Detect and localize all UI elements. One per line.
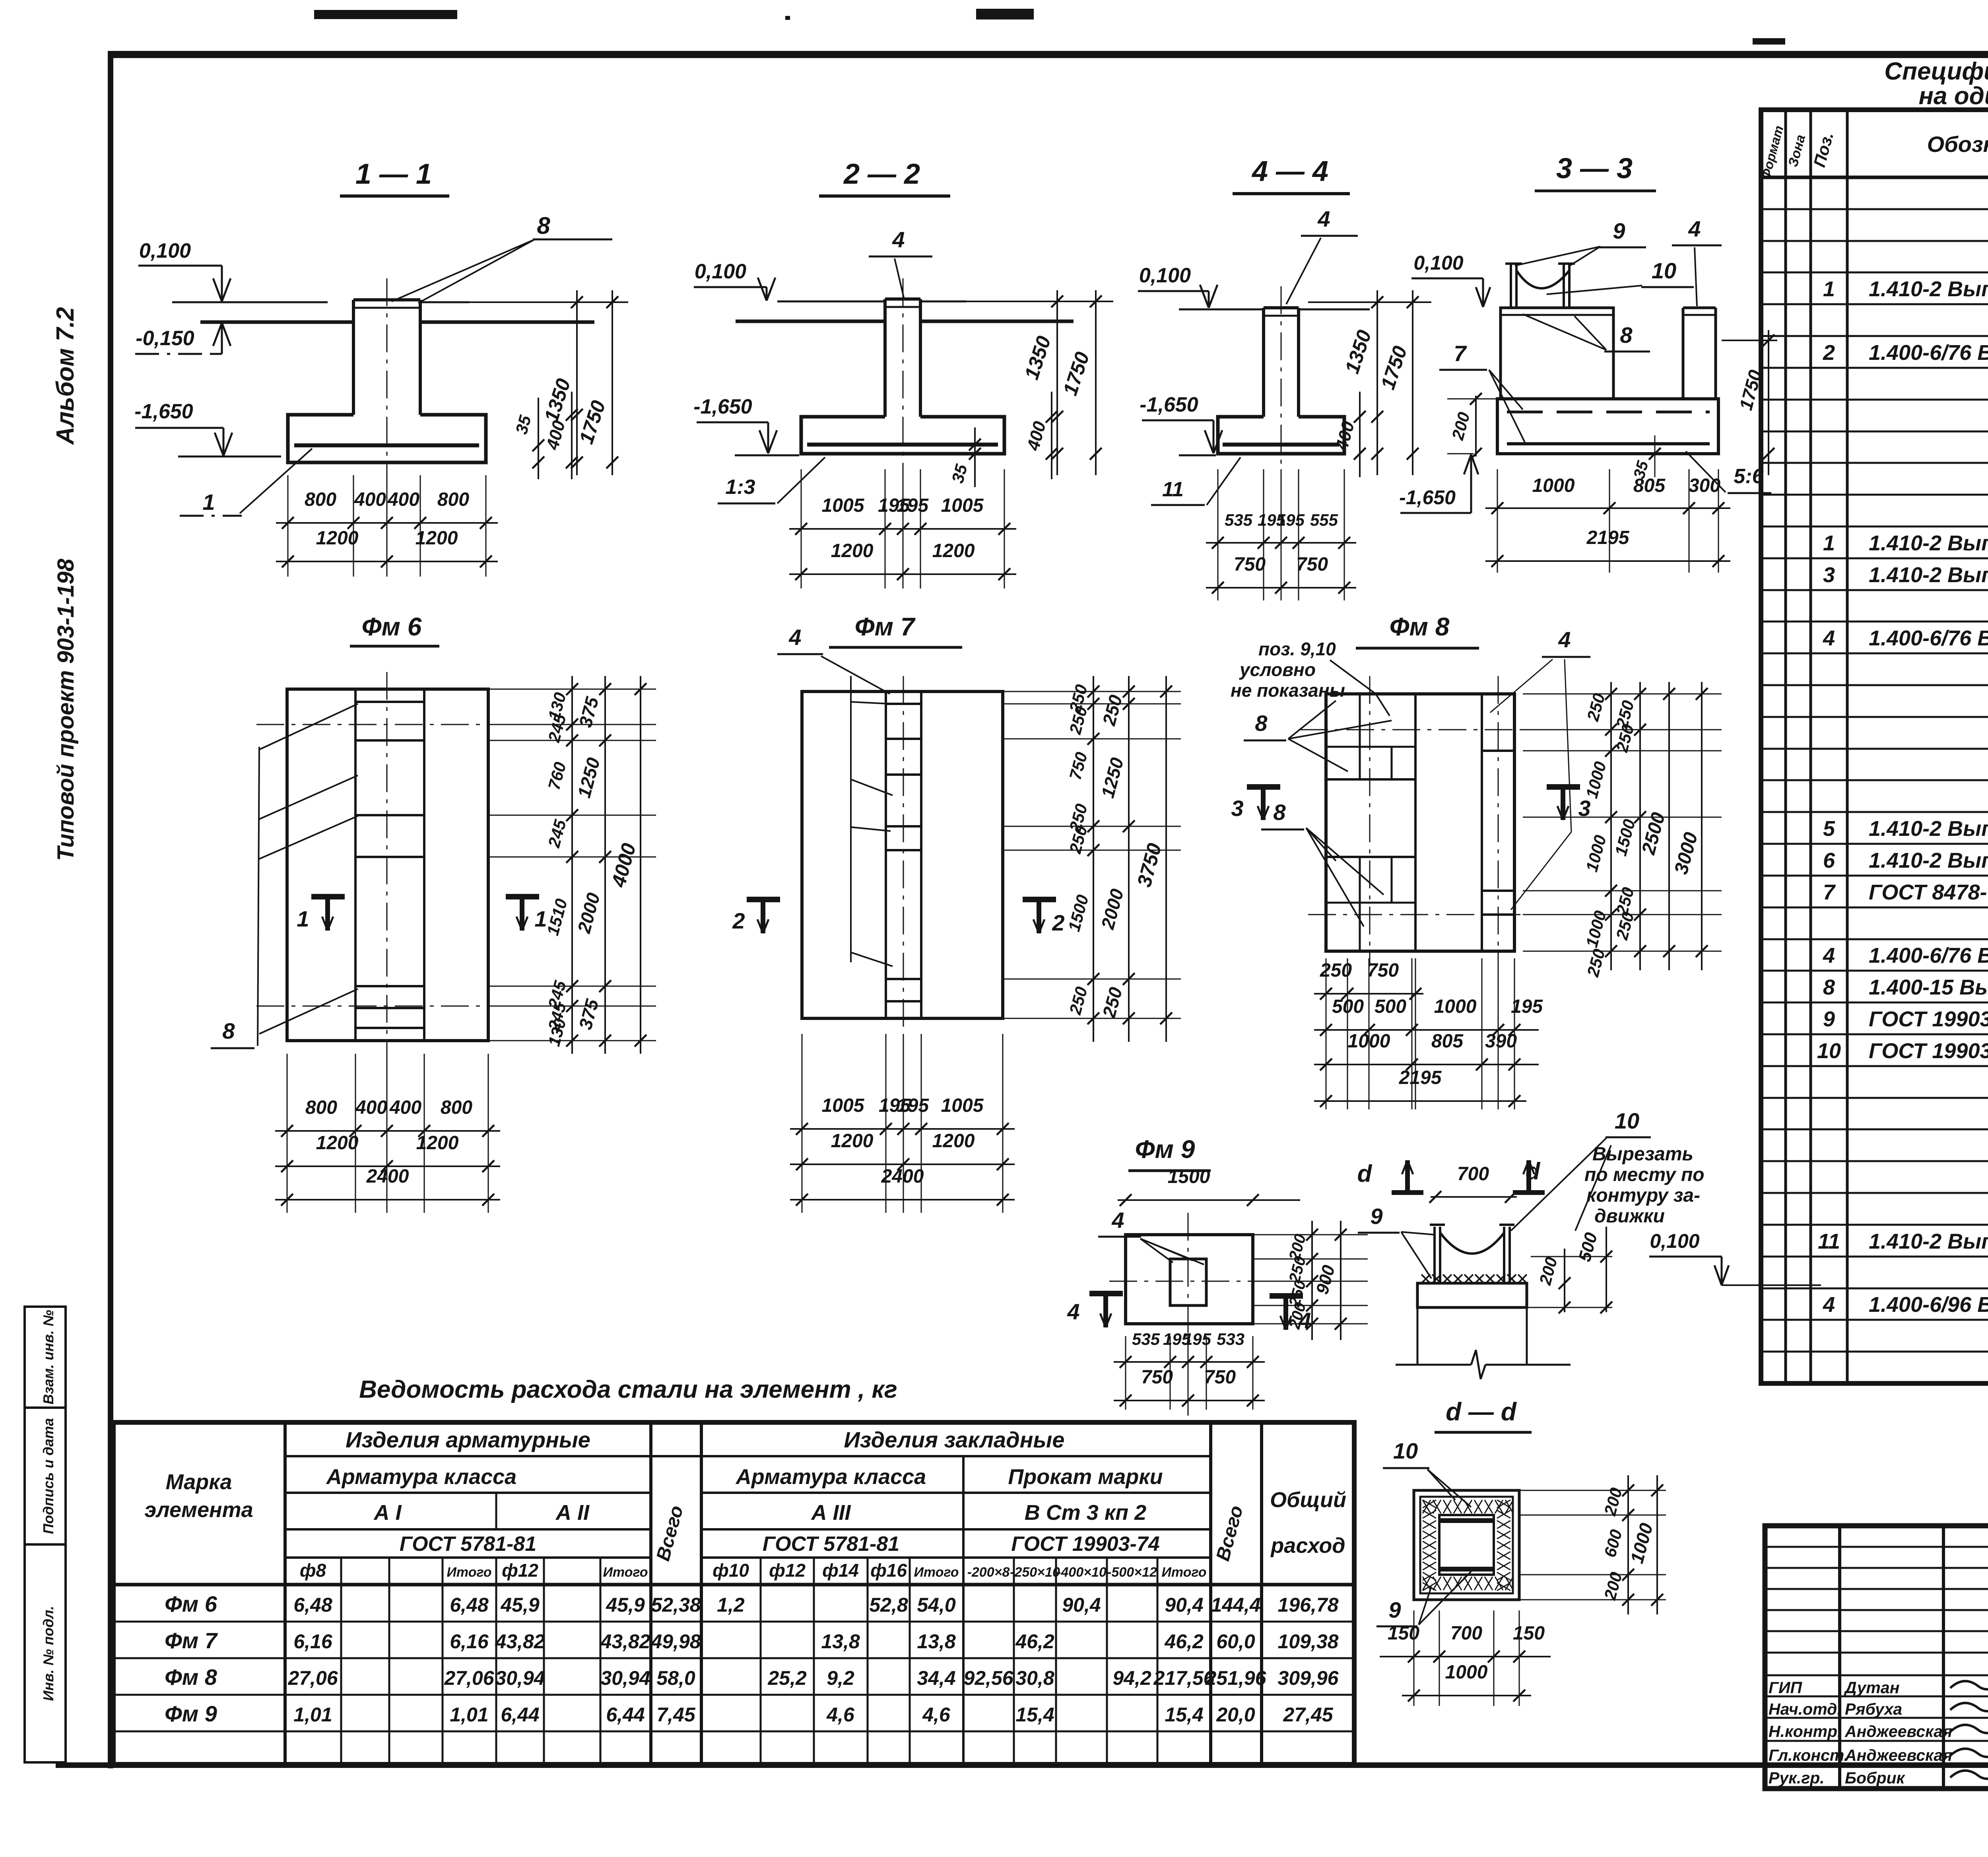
svg-text:11: 11 <box>1162 478 1184 501</box>
svg-text:13,8: 13,8 <box>917 1630 956 1653</box>
svg-text:Ведомость расхода стал: Ведомость расхода стали на элемент , кг <box>359 1376 897 1403</box>
svg-text:Фм 6: Фм 6 <box>165 1591 217 1616</box>
svg-text:1200: 1200 <box>831 1131 874 1152</box>
svg-text:не показаны: не показаны <box>1231 680 1345 701</box>
svg-text:800: 800 <box>305 1097 337 1118</box>
svg-text:250: 250 <box>1320 960 1352 981</box>
svg-text:45,9: 45,9 <box>606 1594 645 1616</box>
svg-text:52,38: 52,38 <box>651 1594 701 1616</box>
svg-text:25,2: 25,2 <box>767 1667 807 1689</box>
svg-text:0,100: 0,100 <box>1413 252 1463 274</box>
svg-text:1,01: 1,01 <box>450 1704 488 1726</box>
svg-text:400: 400 <box>355 1097 387 1118</box>
svg-text:750: 750 <box>1367 960 1399 981</box>
svg-text:Прокат марки: Прокат марки <box>1008 1465 1163 1489</box>
svg-text:ф8: ф8 <box>300 1560 326 1581</box>
svg-text:ГОСТ 5781-81: ГОСТ 5781-81 <box>763 1533 899 1556</box>
svg-text:Бобрик: Бобрик <box>1845 1769 1906 1787</box>
svg-text:750: 750 <box>1141 1367 1173 1388</box>
svg-text:6,16: 6,16 <box>293 1630 333 1653</box>
svg-text:0,100: 0,100 <box>139 239 191 262</box>
svg-text:-1,650: -1,650 <box>1140 393 1198 416</box>
svg-text:ф12: ф12 <box>502 1560 538 1581</box>
svg-text:1,2: 1,2 <box>717 1594 745 1616</box>
svg-text:9: 9 <box>1613 218 1625 243</box>
svg-text:800: 800 <box>437 489 469 510</box>
svg-text:9: 9 <box>1388 1597 1401 1622</box>
svg-text:54,0: 54,0 <box>917 1594 956 1616</box>
svg-text:1005: 1005 <box>941 495 984 516</box>
svg-text:3 — 3: 3 — 3 <box>1556 153 1633 185</box>
svg-text:Взам. инв. №: Взам. инв. № <box>40 1310 56 1404</box>
svg-text:Итого: Итого <box>603 1565 648 1580</box>
svg-text:ф12: ф12 <box>769 1560 806 1581</box>
svg-text:4: 4 <box>788 625 801 650</box>
svg-text:27,45: 27,45 <box>1283 1704 1333 1726</box>
svg-text:30,94: 30,94 <box>495 1667 545 1689</box>
svg-text:1000: 1000 <box>1445 1662 1488 1683</box>
svg-text:Спецификации элементов: Спецификации элементов <box>1884 58 1988 85</box>
svg-text:750: 750 <box>1296 554 1328 575</box>
svg-text:2: 2 <box>1823 341 1835 365</box>
svg-text:1000: 1000 <box>1348 1031 1390 1052</box>
svg-text:8: 8 <box>1620 322 1633 348</box>
svg-text:4: 4 <box>1067 1299 1079 1324</box>
svg-text:ф16: ф16 <box>870 1560 907 1581</box>
svg-text:1.400-6/76 Вып.1: 1.400-6/76 Вып.1 <box>1869 341 1988 365</box>
svg-text:1200: 1200 <box>932 540 975 561</box>
svg-text:533: 533 <box>1217 1330 1244 1348</box>
svg-text:А I: А I <box>373 1501 402 1525</box>
svg-text:1: 1 <box>1823 531 1835 555</box>
svg-text:1.400-6/96 Вып.1: 1.400-6/96 Вып.1 <box>1869 1293 1988 1317</box>
svg-text:30,8: 30,8 <box>1015 1667 1054 1689</box>
svg-text:поз. 9,10: поз. 9,10 <box>1258 639 1336 659</box>
svg-text:3: 3 <box>1823 563 1835 587</box>
svg-text:195: 195 <box>897 495 929 516</box>
svg-text:контуру за-: контуру за- <box>1586 1185 1700 1206</box>
svg-text:Рук.гр.: Рук.гр. <box>1769 1769 1825 1787</box>
svg-text:ф14: ф14 <box>822 1560 859 1581</box>
svg-text:1000: 1000 <box>1434 996 1477 1017</box>
svg-text:2195: 2195 <box>1399 1067 1442 1088</box>
svg-text:195: 195 <box>1183 1330 1211 1348</box>
svg-text:1.410-2 Вып.1: 1.410-2 Вып.1 <box>1869 531 1988 555</box>
svg-text:750: 750 <box>1204 1367 1236 1388</box>
svg-text:0,100: 0,100 <box>1139 264 1191 287</box>
svg-text:150: 150 <box>1513 1623 1545 1644</box>
svg-text:800: 800 <box>305 489 336 510</box>
svg-text:4: 4 <box>1111 1208 1124 1233</box>
svg-text:300: 300 <box>1689 475 1720 496</box>
svg-text:9: 9 <box>1370 1204 1382 1229</box>
svg-text:500: 500 <box>1332 996 1364 1017</box>
svg-text:43,82: 43,82 <box>600 1630 650 1653</box>
svg-text:90,4: 90,4 <box>1062 1594 1101 1616</box>
svg-text:ГОСТ 19903-74: ГОСТ 19903-74 <box>1869 1039 1988 1063</box>
svg-text:1:3: 1:3 <box>725 476 755 499</box>
svg-text:2: 2 <box>732 908 745 933</box>
svg-text:10: 10 <box>1652 258 1676 283</box>
svg-text:Общий: Общий <box>1270 1488 1346 1512</box>
svg-text:2195: 2195 <box>1586 527 1630 548</box>
svg-text:11: 11 <box>1818 1230 1840 1253</box>
svg-text:150: 150 <box>1388 1623 1419 1644</box>
svg-text:800: 800 <box>441 1097 472 1118</box>
svg-text:Дутан: Дутан <box>1844 1678 1899 1697</box>
svg-text:8: 8 <box>1255 711 1268 736</box>
svg-text:4,6: 4,6 <box>922 1704 951 1726</box>
svg-text:Обозначение: Обозначение <box>1927 132 1988 157</box>
svg-text:Н.контр.: Н.контр. <box>1769 1722 1842 1740</box>
svg-text:расход: расход <box>1270 1534 1345 1558</box>
svg-text:4: 4 <box>1317 206 1330 231</box>
svg-text:Анджеевская: Анджеевская <box>1844 1722 1952 1740</box>
svg-text:0,100: 0,100 <box>1650 1230 1699 1252</box>
svg-text:196,78: 196,78 <box>1278 1594 1339 1616</box>
svg-text:4,6: 4,6 <box>826 1704 855 1726</box>
svg-text:1.400-6/76 Вып.1: 1.400-6/76 Вып.1 <box>1869 626 1988 650</box>
svg-text:6: 6 <box>1823 849 1835 872</box>
svg-text:7: 7 <box>1454 341 1467 366</box>
svg-text:d: d <box>1357 1160 1373 1187</box>
svg-text:Марка: Марка <box>166 1470 232 1494</box>
svg-text:27,06: 27,06 <box>444 1667 494 1689</box>
svg-text:Арматура класса: Арматура класса <box>326 1465 516 1489</box>
svg-text:Альбом 7.2: Альбом 7.2 <box>52 307 79 445</box>
svg-text:9,2: 9,2 <box>827 1667 854 1689</box>
svg-text:1.400-15 Вып.1: 1.400-15 Вып.1 <box>1869 975 1988 999</box>
svg-text:Фм 8: Фм 8 <box>165 1665 217 1690</box>
svg-text:20,0: 20,0 <box>1216 1704 1255 1726</box>
svg-text:В Ст 3 кп 2: В Ст 3 кп 2 <box>1025 1501 1146 1525</box>
svg-text:1005: 1005 <box>941 1095 984 1116</box>
svg-text:Фм 9: Фм 9 <box>1135 1135 1195 1164</box>
svg-text:8: 8 <box>537 212 550 239</box>
svg-text:390: 390 <box>1485 1031 1517 1052</box>
svg-text:2400: 2400 <box>881 1166 924 1187</box>
svg-text:6,48: 6,48 <box>293 1594 332 1616</box>
svg-text:-500×12: -500×12 <box>1107 1565 1157 1580</box>
svg-text:400: 400 <box>389 1097 421 1118</box>
svg-text:46,2: 46,2 <box>1164 1630 1204 1653</box>
svg-text:4: 4 <box>1823 1293 1835 1317</box>
svg-text:Нач.отд.: Нач.отд. <box>1769 1700 1842 1718</box>
svg-text:Итого: Итого <box>914 1565 959 1580</box>
svg-text:9: 9 <box>1823 1007 1835 1031</box>
svg-text:1200: 1200 <box>316 528 359 549</box>
svg-text:46,2: 46,2 <box>1015 1630 1054 1653</box>
svg-text:400: 400 <box>354 489 386 510</box>
svg-text:1 — 1: 1 — 1 <box>355 158 432 190</box>
svg-text:1200: 1200 <box>316 1132 359 1154</box>
svg-text:Итого: Итого <box>1161 1565 1206 1580</box>
svg-text:6,16: 6,16 <box>450 1630 489 1653</box>
svg-text:2: 2 <box>1052 910 1064 935</box>
svg-text:А II: А II <box>555 1501 590 1525</box>
svg-text:Изделия закладные: Изделия закладные <box>844 1427 1064 1452</box>
svg-text:1: 1 <box>297 906 309 931</box>
svg-text:Фм 7: Фм 7 <box>855 612 916 641</box>
svg-text:условно: условно <box>1239 659 1316 680</box>
svg-text:8: 8 <box>222 1018 235 1043</box>
svg-text:700: 700 <box>1457 1164 1489 1185</box>
svg-text:1.400-6/76 Вып.1: 1.400-6/76 Вып.1 <box>1869 944 1988 967</box>
svg-text:1,01: 1,01 <box>293 1704 332 1726</box>
svg-text:90,4: 90,4 <box>1165 1594 1203 1616</box>
svg-text:-400×10: -400×10 <box>1056 1565 1107 1580</box>
svg-text:Арматура класса: Арматура класса <box>735 1465 926 1489</box>
svg-text:ГОСТ 5781-81: ГОСТ 5781-81 <box>400 1533 536 1556</box>
svg-text:1: 1 <box>1823 277 1835 301</box>
svg-text:1.410-2 Вып.1: 1.410-2 Вып.1 <box>1869 849 1988 872</box>
svg-text:535: 535 <box>1225 511 1253 529</box>
svg-text:движки: движки <box>1594 1206 1665 1227</box>
svg-text:500: 500 <box>1375 996 1406 1017</box>
svg-text:ГОСТ 8478-66: ГОСТ 8478-66 <box>1869 880 1988 904</box>
svg-text:ГИП: ГИП <box>1769 1678 1803 1697</box>
svg-text:-1,650: -1,650 <box>1399 486 1456 509</box>
svg-text:3: 3 <box>1231 796 1243 821</box>
svg-text:на один фундамент: на один фундамент <box>1919 82 1988 110</box>
svg-text:7,45: 7,45 <box>656 1704 696 1726</box>
svg-text:309,96: 309,96 <box>1278 1667 1339 1689</box>
svg-text:15,4: 15,4 <box>1165 1704 1203 1726</box>
svg-text:d — d: d — d <box>1446 1397 1517 1426</box>
svg-text:2 — 2: 2 — 2 <box>843 158 920 190</box>
svg-text:Фм 9: Фм 9 <box>165 1701 217 1726</box>
svg-text:15,4: 15,4 <box>1015 1704 1054 1726</box>
svg-text:144,4: 144,4 <box>1211 1594 1260 1616</box>
svg-text:Изделия арматурные: Изделия арматурные <box>346 1427 590 1452</box>
svg-text:Итого: Итого <box>447 1565 491 1580</box>
svg-text:805: 805 <box>1431 1031 1464 1052</box>
svg-text:4 — 4: 4 — 4 <box>1251 155 1328 187</box>
svg-text:4: 4 <box>1558 627 1571 652</box>
svg-text:Рябуха: Рябуха <box>1845 1700 1902 1718</box>
svg-text:6,44: 6,44 <box>501 1704 539 1726</box>
svg-text:49,98: 49,98 <box>650 1630 701 1653</box>
svg-text:195: 195 <box>1277 511 1305 529</box>
svg-text:-250×10: -250×10 <box>1010 1565 1060 1580</box>
svg-text:Анджеевская: Анджеевская <box>1844 1746 1952 1764</box>
svg-text:1.410-2 Вып.1: 1.410-2 Вып.1 <box>1869 563 1988 587</box>
svg-text:-0,150: -0,150 <box>136 327 194 350</box>
svg-text:Фм 8: Фм 8 <box>1390 612 1450 641</box>
svg-text:400: 400 <box>387 489 419 510</box>
svg-text:52,8: 52,8 <box>869 1594 908 1616</box>
svg-text:1: 1 <box>202 490 215 515</box>
svg-text:Инв. № подл.: Инв. № подл. <box>40 1606 56 1701</box>
svg-text:6,44: 6,44 <box>606 1704 645 1726</box>
svg-text:109,38: 109,38 <box>1278 1630 1339 1653</box>
svg-text:А III: А III <box>810 1501 851 1525</box>
svg-text:535: 535 <box>1132 1330 1160 1348</box>
svg-text:1500: 1500 <box>1168 1166 1210 1187</box>
svg-text:1200: 1200 <box>415 528 458 549</box>
svg-text:10: 10 <box>1615 1108 1639 1133</box>
svg-text:92,56: 92,56 <box>963 1667 1013 1689</box>
svg-text:-200×8: -200×8 <box>967 1565 1010 1580</box>
svg-text:5: 5 <box>1823 817 1835 841</box>
svg-text:60,0: 60,0 <box>1216 1630 1255 1653</box>
svg-text:195: 195 <box>897 1095 929 1116</box>
svg-text:750: 750 <box>1234 554 1266 575</box>
svg-text:Фм 6: Фм 6 <box>362 612 422 641</box>
svg-text:805: 805 <box>1633 475 1666 496</box>
svg-text:1200: 1200 <box>831 540 874 561</box>
svg-text:4: 4 <box>1823 944 1835 967</box>
svg-text:10: 10 <box>1817 1039 1841 1063</box>
svg-text:94,2: 94,2 <box>1112 1667 1151 1689</box>
svg-text:Типовой проект 903-1-198: Типовой проект 903-1-198 <box>53 558 79 861</box>
svg-text:Фм 7: Фм 7 <box>165 1628 218 1653</box>
svg-text:4: 4 <box>1823 626 1835 650</box>
svg-text:2400: 2400 <box>366 1166 409 1187</box>
svg-text:элемента: элемента <box>144 1498 253 1522</box>
svg-text:13,8: 13,8 <box>821 1630 860 1653</box>
svg-text:-1,650: -1,650 <box>693 395 752 418</box>
svg-text:ф10: ф10 <box>712 1560 749 1581</box>
svg-text:34,4: 34,4 <box>917 1667 955 1689</box>
svg-text:251,96: 251,96 <box>1205 1667 1267 1689</box>
svg-text:1005: 1005 <box>822 1095 865 1116</box>
svg-text:6,48: 6,48 <box>450 1594 489 1616</box>
svg-text:8: 8 <box>1823 975 1835 999</box>
svg-text:45,9: 45,9 <box>500 1594 540 1616</box>
svg-text:7: 7 <box>1823 880 1836 904</box>
svg-text:700: 700 <box>1450 1623 1482 1644</box>
svg-text:43,82: 43,82 <box>495 1630 545 1653</box>
svg-text:1200: 1200 <box>416 1132 459 1154</box>
svg-text:1.410-2 Вып.1: 1.410-2 Вып.1 <box>1869 1230 1988 1253</box>
svg-text:555: 555 <box>1310 511 1338 529</box>
svg-text:-1,650: -1,650 <box>134 400 193 423</box>
svg-text:4: 4 <box>1688 216 1701 241</box>
svg-text:Гл.конст.: Гл.конст. <box>1769 1746 1848 1764</box>
svg-text:1.410-2 Вып.1: 1.410-2 Вып.1 <box>1869 817 1988 841</box>
svg-text:ГОСТ 19903-74: ГОСТ 19903-74 <box>1869 1007 1988 1031</box>
svg-text:1.410-2 Вып.1: 1.410-2 Вып.1 <box>1869 277 1988 301</box>
svg-text:ГОСТ 19903-74: ГОСТ 19903-74 <box>1011 1533 1159 1556</box>
svg-text:Подпись и дата: Подпись и дата <box>40 1418 56 1534</box>
svg-text:8: 8 <box>1273 800 1286 825</box>
svg-text:1000: 1000 <box>1532 475 1575 496</box>
svg-text:58,0: 58,0 <box>656 1667 695 1689</box>
svg-text:195: 195 <box>1511 996 1543 1017</box>
svg-text:27,06: 27,06 <box>287 1667 338 1689</box>
svg-text:0,100: 0,100 <box>695 260 746 283</box>
svg-text:1200: 1200 <box>932 1131 975 1152</box>
svg-text:30,94: 30,94 <box>600 1667 650 1689</box>
svg-text:1005: 1005 <box>822 495 865 516</box>
svg-text:10: 10 <box>1393 1438 1418 1463</box>
svg-text:4: 4 <box>892 227 905 252</box>
